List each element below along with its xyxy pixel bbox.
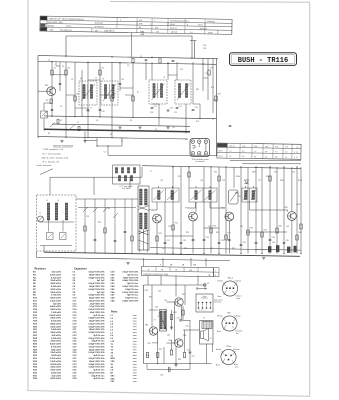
svg-text:0.02µF 150V 20%: 0.02µF 150V 20%	[88, 352, 104, 354]
switch arrow	[196, 288, 206, 290]
svg-text:Lines: Lines	[140, 34, 144, 36]
svg-text:C22: C22	[160, 180, 163, 182]
notes text	[42, 145, 74, 163]
svg-text:TR6: TR6	[275, 146, 278, 148]
svg-text:33kΩ ±10%: 33kΩ ±10%	[50, 367, 61, 369]
svg-text:1.5kΩ ±5%: 1.5kΩ ±5%	[51, 312, 61, 314]
svg-text:C52: C52	[192, 356, 195, 358]
transistor TR7 output	[175, 294, 187, 306]
node	[65, 136, 66, 137]
svg-text:Emitter: Emitter	[217, 315, 223, 318]
wire	[157, 330, 159, 332]
wire	[182, 319, 190, 321]
svg-text:R12: R12	[196, 121, 199, 123]
wire	[184, 330, 186, 353]
resistor R22	[300, 224, 302, 229]
wire	[180, 167, 182, 254]
svg-text:C47: C47	[177, 318, 180, 320]
resistor R39	[183, 353, 185, 358]
svg-text:200pF 350V 10%: 200pF 350V 10%	[89, 298, 105, 300]
wire	[291, 167, 293, 212]
svg-text:TR116: TR116	[66, 26, 71, 28]
left rail output stage	[143, 285, 145, 364]
svg-text:4µF 6V elec: 4µF 6V elec	[94, 377, 106, 380]
svg-text:1.4: 1.4	[190, 32, 193, 34]
svg-text:15kΩ ±10%: 15kΩ ±10%	[50, 292, 61, 294]
wire	[249, 231, 287, 233]
switch S2	[70, 125, 75, 130]
resistor R16	[210, 228, 212, 233]
trimmer C2	[47, 233, 54, 240]
svg-text:0.01µF 150V 20%: 0.01µF 150V 20%	[88, 346, 104, 348]
transistor base diagram TR5	[217, 312, 242, 335]
supply rail top	[38, 56, 218, 59]
wire	[75, 107, 88, 109]
svg-text:0.05µF 150V 20%: 0.05µF 150V 20%	[88, 332, 104, 334]
svg-text:R39: R39	[178, 359, 181, 361]
svg-text:250pF 350V 10%: 250pF 350V 10%	[89, 349, 105, 351]
svg-text:R32: R32	[169, 340, 172, 342]
wire	[120, 87, 133, 89]
coil L3	[65, 203, 68, 220]
wire	[93, 177, 95, 195]
svg-text:180pF 350V 10%: 180pF 350V 10%	[89, 329, 105, 331]
wire	[74, 62, 76, 117]
wire	[204, 227, 219, 229]
wire	[157, 335, 159, 343]
capacitor C4	[51, 109, 54, 111]
svg-text:C17: C17	[154, 106, 157, 108]
svg-text:0.1µF 150V 20%: 0.1µF 150V 20%	[90, 306, 105, 308]
resistor list	[33, 267, 61, 380]
capacitor C7	[119, 83, 122, 85]
svg-text:1kΩ ±10%: 1kΩ ±10%	[52, 375, 62, 377]
driver transformer T6	[159, 310, 167, 332]
switch S1	[50, 123, 55, 128]
svg-text:ABOVE: ABOVE	[171, 31, 178, 34]
wire	[250, 202, 288, 212]
svg-text:C10: C10	[121, 79, 124, 81]
svg-text:Emitter: Emitter	[216, 348, 222, 351]
wire	[240, 167, 242, 254]
wire	[291, 220, 293, 253]
resistor R3	[74, 96, 76, 101]
wire	[199, 104, 201, 118]
svg-text:TR5,6: TR5,6	[226, 346, 231, 348]
wire	[163, 347, 165, 364]
svg-text:14: 14	[104, 152, 106, 154]
voltage/alignment data table	[40, 16, 232, 35]
wire	[184, 285, 186, 305]
svg-text:3.9kΩ ±5%: 3.9kΩ ±5%	[51, 329, 61, 331]
svg-text:R2: R2	[46, 100, 48, 102]
capacitor C25	[218, 242, 221, 244]
svg-text:C46: C46	[167, 335, 170, 337]
svg-text:100µF 9V elec: 100µF 9V elec	[125, 289, 139, 291]
capacitor list continued	[111, 272, 140, 303]
svg-text:Ferrite rod aerial: Ferrite rod aerial	[37, 164, 52, 167]
capacitor C11	[145, 59, 148, 61]
svg-text:100kΩ ±10%: 100kΩ ±10%	[49, 315, 61, 317]
wire	[146, 364, 148, 370]
capacitor C9	[192, 109, 195, 111]
svg-text:R14: R14	[175, 223, 178, 225]
svg-text:10kΩ ±10%: 10kΩ ±10%	[50, 352, 61, 354]
wire	[44, 102, 51, 104]
svg-text:0.04µF 150V 20%: 0.04µF 150V 20%	[122, 279, 138, 282]
ground	[118, 126, 121, 128]
wire	[212, 344, 214, 352]
svg-text:C16: C16	[102, 111, 105, 113]
wire	[43, 119, 45, 132]
svg-text:0.04µF 150V 20%: 0.04µF 150V 20%	[88, 317, 104, 320]
left rail	[37, 56, 39, 139]
svg-text:1.2: 1.2	[254, 151, 256, 153]
svg-text:15kΩ ±10%: 15kΩ ±10%	[50, 370, 61, 372]
bus wire	[44, 116, 217, 119]
wire	[131, 33, 133, 57]
svg-text:C45: C45	[155, 307, 158, 309]
wire	[119, 62, 121, 91]
svg-text:0.01µF 150V 20%: 0.01µF 150V 20%	[88, 338, 104, 340]
svg-text:9: 9	[294, 152, 295, 154]
svg-text:R19: R19	[264, 230, 267, 232]
svg-text:OC44: OC44	[170, 24, 175, 26]
transistor TR5	[221, 208, 233, 221]
capacitor C29	[255, 242, 258, 244]
capacitor C37 electrolytic	[276, 245, 279, 252]
svg-text:3.3kΩ ±10%: 3.3kΩ ±10%	[50, 300, 61, 302]
svg-text:39kΩ ±10%: 39kΩ ±10%	[50, 283, 61, 285]
svg-text:470Ω ±10%: 470Ω ±10%	[50, 288, 61, 291]
transistor voltage table	[217, 143, 301, 159]
wire	[225, 167, 227, 254]
svg-text:9: 9	[187, 24, 188, 26]
resistor R34	[182, 310, 184, 315]
svg-text:470kΩ ±5%: 470kΩ ±5%	[50, 363, 61, 366]
transformer T4	[175, 80, 191, 104]
svg-text:Resistors: Resistors	[35, 267, 47, 270]
wire	[190, 258, 192, 267]
svg-text:T4: T4	[154, 320, 156, 322]
svg-text:R16b: R16b	[236, 176, 240, 178]
resistor R8	[159, 59, 161, 63]
wire	[205, 258, 207, 267]
wire	[100, 94, 112, 96]
svg-text:1kΩ ±10%: 1kΩ ±10%	[52, 272, 62, 274]
svg-text:B1: B1	[48, 133, 50, 135]
svg-text:C18: C18	[150, 112, 153, 114]
svg-text:OC45 x2: OC45 x2	[170, 28, 177, 30]
svg-text:C45: C45	[164, 300, 167, 302]
wire	[56, 62, 60, 66]
svg-text:100pF 350V 10%: 100pF 350V 10%	[89, 286, 105, 288]
svg-text:1 MW waveband s. off: 1 MW waveband s. off	[43, 149, 64, 151]
svg-text:0.01µF 150V 20%: 0.01µF 150V 20%	[88, 309, 104, 311]
svg-text:Collector: Collector	[235, 280, 242, 283]
svg-text:L5: L5	[140, 56, 142, 58]
svg-text:Emitter: Emitter	[218, 280, 224, 283]
svg-text:R33: R33	[174, 312, 177, 314]
resistor R2	[65, 70, 67, 75]
svg-text:Capacitors: Capacitors	[74, 267, 88, 270]
resistor R14	[172, 225, 174, 230]
svg-text:S3: S3	[108, 208, 110, 210]
svg-text:EMIT.: EMIT.	[218, 150, 223, 152]
svg-text:7.9: 7.9	[229, 156, 231, 158]
svg-text:R24: R24	[216, 232, 219, 234]
svg-text:TR'S and diodes viewed: TR'S and diodes viewed	[192, 159, 209, 161]
capacitor C20	[94, 239, 97, 241]
svg-text:Base: Base	[216, 365, 220, 367]
svg-text:C35: C35	[286, 240, 289, 242]
wire	[162, 258, 164, 267]
wire	[111, 62, 113, 138]
wire	[167, 62, 169, 80]
svg-text:8µF 6V elec: 8µF 6V elec	[94, 355, 106, 357]
capacitor C27	[269, 239, 272, 241]
capacitor C10	[229, 125, 232, 127]
svg-text:C41: C41	[162, 248, 165, 250]
capacitor C26	[240, 244, 243, 246]
ground	[166, 126, 169, 128]
svg-text:R1: R1	[62, 66, 64, 68]
svg-text:0: 0	[294, 157, 295, 159]
svg-text:8µF 6V elec: 8µF 6V elec	[94, 370, 106, 372]
transistor TR1	[45, 85, 56, 95]
svg-text:0.6: 0.6	[285, 151, 287, 153]
resistor R12	[104, 228, 106, 233]
capacitor C38 electrolytic	[287, 247, 290, 253]
svg-text:1.2kΩ ±10%: 1.2kΩ ±10%	[50, 361, 61, 363]
resistor R13	[131, 236, 133, 241]
wire	[168, 74, 177, 76]
coil L2	[55, 203, 58, 220]
svg-text:R6: R6	[130, 120, 132, 122]
svg-text:C21: C21	[172, 127, 175, 129]
resistor R20	[276, 228, 278, 233]
capacitor C19	[176, 107, 179, 109]
svg-text:TR1-4: TR1-4	[228, 277, 233, 279]
wire	[210, 167, 212, 254]
capacitor C17	[151, 107, 154, 109]
svg-text:LW: LW	[95, 30, 98, 32]
svg-text:S1: S1	[60, 120, 62, 122]
svg-text:W in direction T.B.: W in direction T.B.	[43, 160, 60, 163]
svg-text:R5: R5	[114, 94, 116, 96]
bus wire	[230, 160, 301, 162]
ground	[138, 126, 141, 128]
wire	[40, 169, 53, 175]
resistor R25	[156, 236, 158, 241]
svg-text:R37: R37	[159, 349, 162, 351]
capacitor C5	[87, 109, 90, 111]
wire	[233, 167, 235, 188]
wire	[51, 62, 53, 117]
wire	[167, 342, 175, 344]
svg-text:TR5: TR5	[265, 146, 268, 148]
wire	[171, 340, 173, 350]
svg-text:R2: R2	[68, 68, 70, 70]
wire	[210, 202, 225, 208]
svg-text:L1: L1	[46, 200, 48, 202]
svg-text:R16: R16	[213, 226, 216, 228]
svg-text:22kΩ ±10%: 22kΩ ±10%	[50, 309, 61, 311]
wire	[129, 177, 131, 188]
svg-text:65pF 350V 10%: 65pF 350V 10%	[90, 312, 105, 314]
resistor R24	[269, 176, 271, 181]
svg-text:OC45: OC45	[208, 32, 213, 34]
wavechange switch wires	[76, 199, 138, 254]
svg-text:C7: C7	[90, 108, 92, 110]
svg-text:C43: C43	[210, 248, 213, 250]
resistor R17	[225, 235, 227, 240]
driver transformer connection box	[196, 294, 213, 312]
wire	[300, 167, 302, 254]
svg-text:C1: C1	[39, 213, 41, 215]
node	[65, 55, 66, 56]
wire	[38, 90, 47, 92]
svg-text:MR1: MR1	[252, 172, 256, 174]
svg-text:1MΩ ±10%: 1MΩ ±10%	[51, 349, 61, 351]
wire	[88, 79, 100, 81]
output transformer and speaker	[200, 321, 214, 345]
svg-text:R22: R22	[98, 222, 101, 224]
svg-text:Tags viewed: Tags viewed	[214, 299, 222, 301]
svg-text:MODEL: MODEL	[48, 25, 54, 27]
svg-text:0.1: 0.1	[242, 151, 244, 153]
capacitor C54	[160, 367, 170, 377]
svg-text:0.01µF 150V 20%: 0.01µF 150V 20%	[88, 372, 104, 374]
svg-text:from below: from below	[122, 188, 131, 190]
svg-text:2: 2	[215, 270, 216, 272]
svg-text:R7: R7	[137, 92, 139, 94]
svg-text:L2: L2	[95, 78, 97, 80]
node	[51, 116, 52, 117]
wire	[165, 235, 193, 237]
resistor R37	[157, 353, 159, 358]
wire	[36, 251, 38, 257]
svg-text:8: 8	[215, 275, 216, 277]
transistor TR3	[149, 210, 161, 223]
wire	[192, 221, 194, 254]
capacitor C28	[283, 242, 286, 244]
svg-text:8µF 6V elec: 8µF 6V elec	[127, 295, 139, 297]
svg-text:1kΩ ±5%: 1kΩ ±5%	[53, 303, 62, 305]
svg-text:470: 470	[156, 31, 159, 33]
transistor TR2 emitter resistor	[50, 99, 52, 104]
svg-text:R3: R3	[77, 94, 79, 96]
svg-text:8pF 1pF: 8pF 1pF	[97, 280, 105, 282]
capacitor C6	[99, 109, 102, 111]
wire	[175, 285, 177, 297]
svg-text:C32: C32	[203, 45, 206, 47]
svg-text:Parts: Parts	[111, 311, 118, 314]
svg-text:TR7: TR7	[285, 146, 288, 148]
wire	[189, 364, 191, 370]
wire	[176, 62, 178, 80]
svg-text:4.5: 4.5	[285, 157, 287, 159]
svg-text:R29: R29	[232, 248, 235, 250]
svg-text:56kΩ ±5%: 56kΩ ±5%	[52, 355, 62, 357]
diode MR1	[245, 180, 249, 184]
wire	[183, 329, 200, 331]
wire	[228, 221, 230, 254]
svg-text:12: 12	[296, 157, 298, 159]
wire	[269, 167, 271, 254]
svg-text:C37: C37	[240, 226, 243, 228]
resistor R7	[132, 96, 134, 101]
wire	[97, 138, 122, 146]
svg-text:C8: C8	[96, 120, 98, 122]
svg-text:C44: C44	[272, 242, 275, 244]
svg-text:180pF 350V 10%: 180pF 350V 10%	[89, 274, 105, 276]
wire	[181, 306, 183, 321]
transformer T1	[79, 79, 97, 106]
svg-text:C6: C6	[71, 79, 73, 81]
wire	[52, 74, 66, 76]
svg-text:1100-1900 m: 1100-1900 m	[104, 30, 115, 32]
wire	[261, 167, 263, 254]
svg-text:CAB REF. W AUGUST 1965: CAB REF. W AUGUST 1965	[143, 273, 169, 276]
svg-text:1.4: 1.4	[229, 151, 231, 153]
wire	[40, 221, 74, 223]
svg-text:L1: L1	[81, 78, 83, 80]
svg-text:R13: R13	[178, 176, 181, 178]
svg-text:R26: R26	[246, 232, 249, 234]
svg-text:C33: C33	[272, 237, 275, 239]
svg-text:PP9: PP9	[139, 23, 142, 25]
tuning gang C1	[38, 216, 44, 222]
svg-text:0.01µF 150V 20%: 0.01µF 150V 20%	[88, 358, 104, 360]
svg-text:R18: R18	[250, 228, 253, 230]
svg-text:3.2: 3.2	[296, 152, 298, 154]
svg-text:C24: C24	[183, 240, 186, 242]
wire	[48, 220, 50, 232]
svg-text:4.7kΩ ±5%: 4.7kΩ ±5%	[51, 345, 61, 348]
svg-text:0.04µF 150V 20%: 0.04µF 150V 20%	[88, 294, 104, 297]
svg-text:0.01µF 150V 20%: 0.01µF 150V 20%	[88, 272, 104, 274]
svg-text:VR1: VR1	[238, 196, 242, 198]
svg-text:L2: L2	[57, 200, 59, 202]
capacitor C32	[228, 239, 231, 241]
supply rail output stage	[144, 284, 204, 286]
volume control VR1	[229, 190, 239, 204]
wire	[175, 347, 177, 364]
svg-text:5pF 1pF: 5pF 1pF	[97, 292, 105, 294]
wire	[167, 301, 175, 303]
svg-text:C31: C31	[292, 172, 295, 174]
wire	[189, 202, 196, 208]
resistor R38	[170, 350, 172, 355]
wire	[147, 276, 149, 286]
coil connection detail box L7 L9	[113, 165, 141, 190]
resistor R36	[146, 353, 148, 358]
svg-text:0.01µF 150V 20%: 0.01µF 150V 20%	[122, 292, 138, 294]
svg-text:4.5: 4.5	[265, 156, 267, 158]
svg-text:R20: R20	[279, 226, 282, 228]
svg-text:VOLTS: VOLTS	[229, 146, 236, 148]
wire	[283, 167, 285, 254]
svg-text:8µF 6V elec: 8µF 6V elec	[127, 274, 139, 276]
svg-text:C39: C39	[286, 226, 289, 228]
bus wire	[52, 124, 190, 126]
wire	[143, 258, 145, 267]
bus wire	[37, 257, 231, 260]
svg-text:OC81 x2: OC81 x2	[200, 28, 207, 30]
svg-text:TR5: TR5	[227, 312, 231, 314]
wire	[158, 104, 160, 125]
